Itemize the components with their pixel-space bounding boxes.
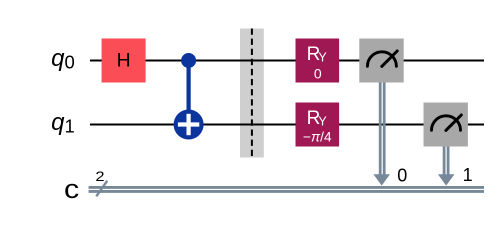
clbit label c [64, 174, 79, 203]
svg-text:0: 0 [314, 65, 322, 81]
classical wire slash [96, 181, 107, 197]
CX control dot [181, 53, 196, 68]
wire q0 [90, 60, 484, 62]
measure M0 gauge arc [367, 52, 396, 67]
svg-text:q: q [51, 45, 65, 72]
wire q1 [90, 124, 484, 126]
svg-text:2: 2 [95, 170, 104, 185]
svg-text:−π/4: −π/4 [303, 129, 332, 144]
measure M1 gauge arc [432, 116, 461, 131]
svg-text:c: c [64, 174, 79, 203]
svg-text:0: 0 [65, 51, 75, 72]
svg-text:0: 0 [397, 166, 407, 186]
measure M0 double line down [379, 83, 382, 179]
gate RY on q0 [296, 39, 340, 83]
svg-text:H: H [117, 50, 131, 72]
barrier dashed line [251, 29, 253, 158]
svg-text:Y: Y [318, 51, 327, 65]
measure M1 double line down [443, 147, 446, 179]
svg-text:1: 1 [463, 165, 473, 185]
CX vertical wire [187, 61, 191, 125]
classical width label 2 [95, 170, 104, 185]
svg-text:q: q [51, 109, 65, 136]
svg-text:Y: Y [318, 115, 327, 129]
measure M0 needle [382, 51, 397, 66]
classical wire c (double line) [89, 186, 484, 189]
CX target (plus circle) [174, 110, 204, 140]
gate RY on q1 [296, 103, 340, 147]
measure M0 arrowhead [373, 174, 390, 185]
measure M1 needle [446, 115, 461, 130]
svg-text:1: 1 [65, 115, 75, 136]
measure M0 box [359, 39, 403, 83]
barrier (background rect) [240, 29, 264, 158]
measure M1 box [424, 103, 468, 147]
gate H [102, 39, 146, 83]
measure M1 arrowhead [438, 174, 455, 185]
